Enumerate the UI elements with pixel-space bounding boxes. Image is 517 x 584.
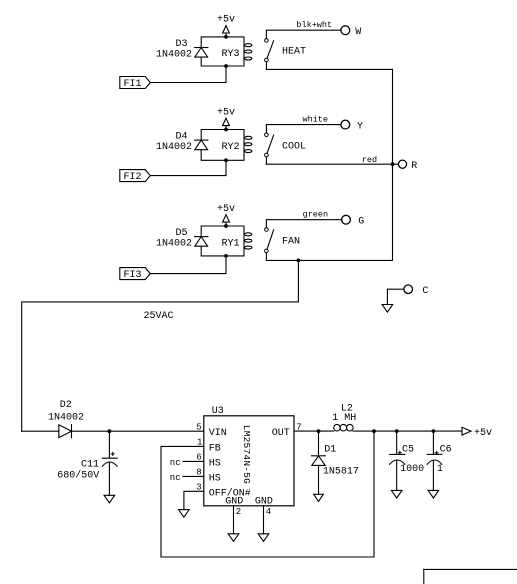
svg-text:HS: HS <box>209 473 221 484</box>
svg-text:white: white <box>303 114 329 124</box>
svg-text:1: 1 <box>197 438 202 448</box>
svg-text:nc: nc <box>170 473 181 483</box>
svg-text:HEAT: HEAT <box>282 47 306 58</box>
svg-text:green: green <box>303 209 329 219</box>
svg-text:+5v: +5v <box>217 107 235 118</box>
svg-text:C11: C11 <box>81 459 99 470</box>
svg-text:W: W <box>355 27 361 38</box>
svg-text:FAN: FAN <box>282 237 300 248</box>
svg-text:D1: D1 <box>324 444 336 455</box>
svg-text:FI2: FI2 <box>123 172 141 183</box>
svg-text:D3: D3 <box>175 39 187 50</box>
svg-text:5: 5 <box>196 422 201 432</box>
svg-text:FI1: FI1 <box>123 79 141 90</box>
svg-text:LM2574N-5G: LM2574N-5G <box>241 425 252 484</box>
svg-text:RY2: RY2 <box>222 142 240 153</box>
svg-text:680/50V: 680/50V <box>57 470 99 482</box>
svg-text:3: 3 <box>196 483 201 493</box>
svg-text:1N5817: 1N5817 <box>323 467 359 478</box>
svg-text:2: 2 <box>236 507 241 517</box>
svg-text:+5v: +5v <box>474 428 492 439</box>
svg-text:nc: nc <box>170 458 181 468</box>
svg-text:+5v: +5v <box>217 15 235 26</box>
svg-text:1N4002: 1N4002 <box>48 413 84 424</box>
svg-text:C6: C6 <box>440 444 452 455</box>
svg-text:GND: GND <box>225 497 243 508</box>
svg-text:Y: Y <box>357 121 363 132</box>
svg-text:FI3: FI3 <box>123 270 141 281</box>
svg-text:1N4002: 1N4002 <box>156 239 192 250</box>
svg-text:C: C <box>422 286 428 297</box>
svg-text:blk+wht: blk+wht <box>296 20 332 30</box>
svg-text:1000: 1000 <box>400 464 424 475</box>
svg-text:25VAC: 25VAC <box>144 311 174 322</box>
svg-text:OUT: OUT <box>272 428 290 439</box>
svg-text:6: 6 <box>196 453 201 463</box>
svg-text:RY3: RY3 <box>222 49 240 60</box>
svg-text:U3: U3 <box>212 406 224 417</box>
svg-text:8: 8 <box>196 468 201 478</box>
svg-text:1 MH: 1 MH <box>332 413 356 424</box>
svg-text:1N4002: 1N4002 <box>156 142 192 153</box>
svg-text:red: red <box>362 155 377 165</box>
svg-text:4: 4 <box>266 507 271 517</box>
svg-text:R: R <box>411 161 417 172</box>
svg-text:HS: HS <box>209 458 221 469</box>
svg-text:+5v: +5v <box>217 204 235 215</box>
svg-text:VIN: VIN <box>209 428 227 439</box>
svg-text:G: G <box>358 216 364 227</box>
svg-text:1: 1 <box>437 464 443 475</box>
svg-text:C5: C5 <box>402 444 414 455</box>
svg-text:RY1: RY1 <box>222 238 240 249</box>
svg-text:D4: D4 <box>175 132 187 143</box>
svg-text:D2: D2 <box>60 400 72 411</box>
svg-text:D5: D5 <box>175 228 187 239</box>
svg-text:COOL: COOL <box>282 141 306 152</box>
svg-text:1N4002: 1N4002 <box>156 50 192 61</box>
svg-text:FB: FB <box>209 443 221 454</box>
